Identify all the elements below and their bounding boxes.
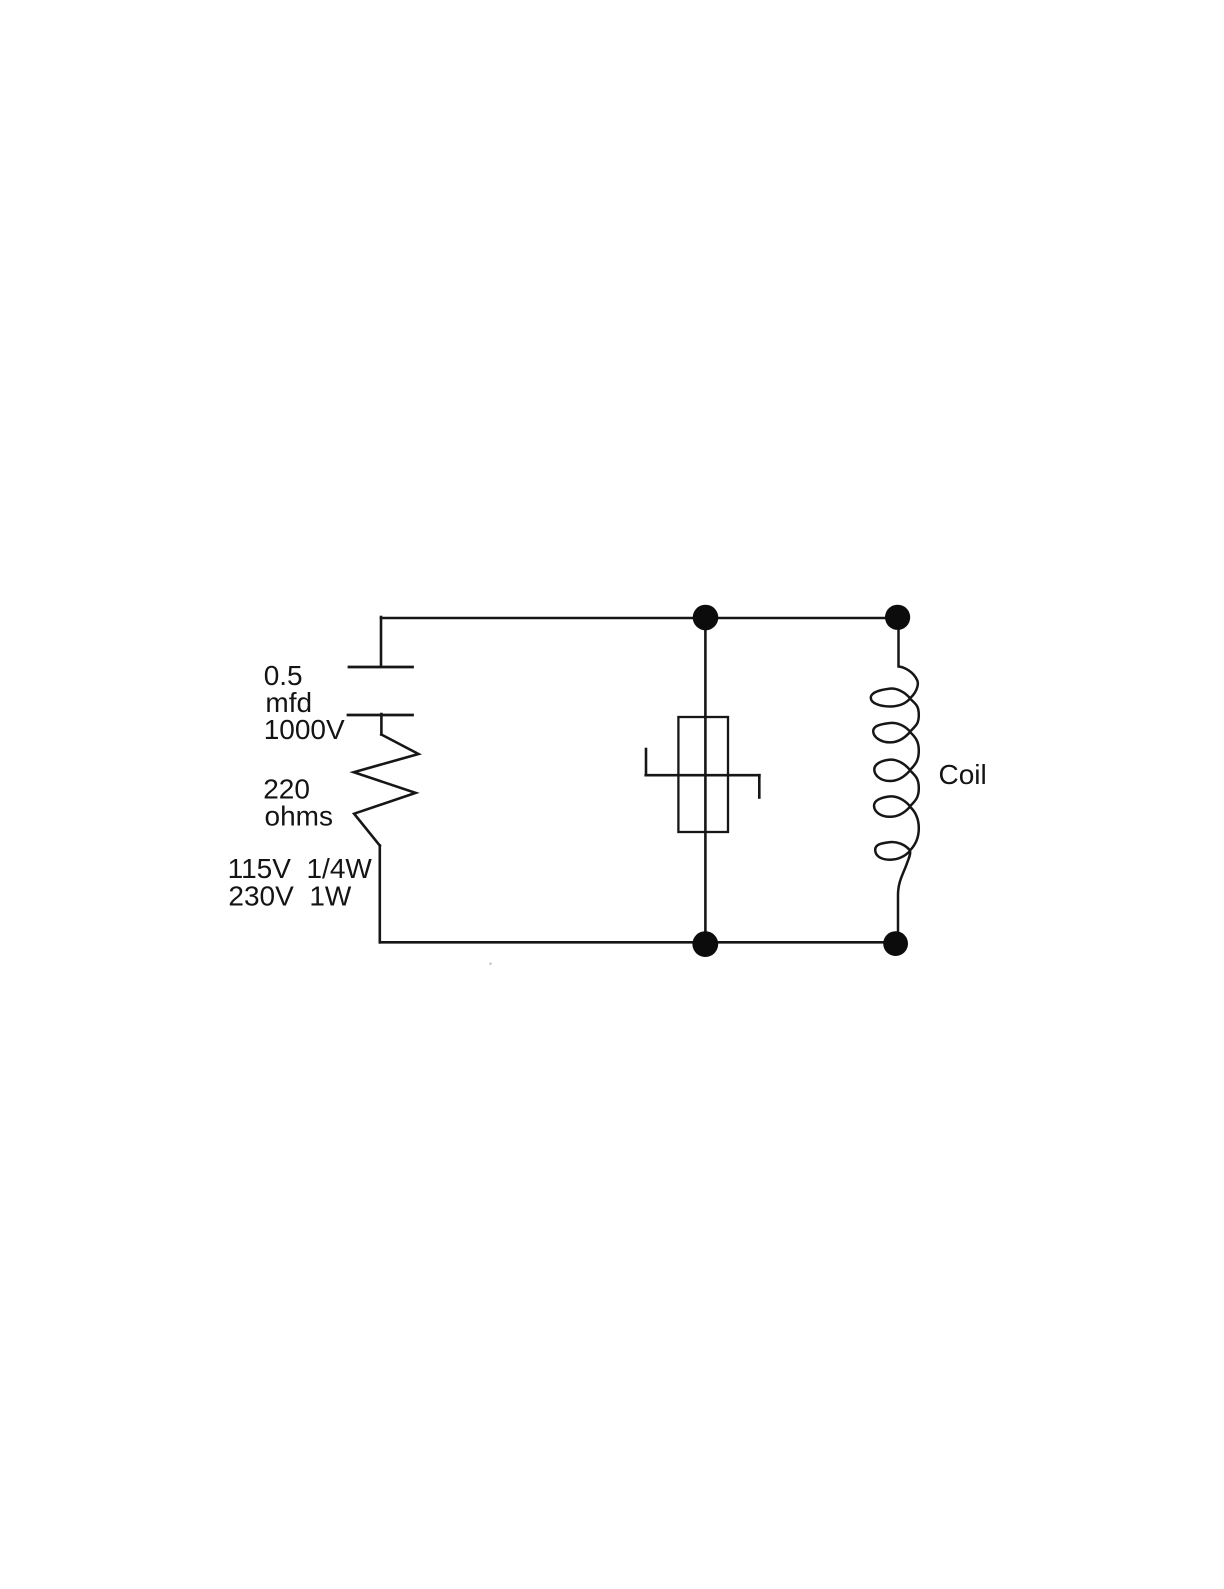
- wire: middle branch vertical through suppressor: [704, 618, 707, 945]
- wire: left branch lead from top rail to capacitor: [380, 617, 383, 666]
- wire: capacitor bottom plate to resistor: [380, 714, 383, 735]
- capacitor C1 (0.5 mfd 1000V) top plate: [349, 666, 413, 669]
- inductor L1 coil (with top lead from node and bottom lead to node): [871, 630, 919, 932]
- wire: top rail: [381, 617, 898, 620]
- svg-text:ohms: ohms: [265, 801, 333, 832]
- wire: bottom rail: [380, 941, 896, 944]
- svg-text:230V 1W: 230V 1W: [228, 881, 352, 912]
- surge suppressor body rectangle: [678, 717, 728, 832]
- junction node: bottom right: [883, 931, 908, 956]
- junction node: bottom middle: [692, 931, 718, 957]
- svg-text:Coil: Coil: [939, 759, 987, 790]
- svg-text:115V 1/4W: 115V 1/4W: [228, 853, 373, 884]
- junction node: top middle: [693, 605, 719, 631]
- wire: resistor to bottom rail: [378, 846, 381, 943]
- stray scan speck: [489, 963, 491, 965]
- resistor R1 220 ohms zigzag: [354, 735, 419, 846]
- suppressor element: right down tick: [758, 775, 761, 797]
- suppressor element: left up tick: [645, 749, 648, 775]
- capacitor C1 bottom plate: [348, 714, 413, 717]
- junction node: top right: [885, 605, 910, 630]
- svg-text:1000V: 1000V: [264, 714, 345, 745]
- suppressor element: horizontal stroke: [646, 774, 760, 777]
